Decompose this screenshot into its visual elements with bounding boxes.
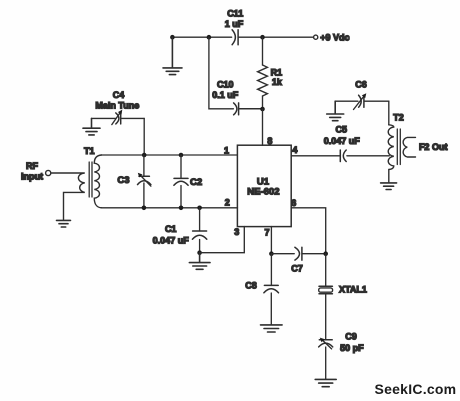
- svg-text:C8: C8: [245, 281, 257, 291]
- ground (below C4): [83, 118, 100, 134]
- ground (below C8): [261, 325, 283, 332]
- node: C11 right / R1 top junction: [260, 35, 265, 40]
- svg-text:C3: C3: [117, 175, 129, 186]
- ground (below C6 left): [327, 101, 344, 121]
- capacitor C8: [264, 254, 279, 324]
- svg-text:0.047 uF: 0.047 uF: [324, 136, 361, 146]
- wire: pin 3 to C1 bottom: [200, 227, 245, 253]
- svg-text:1: 1: [224, 145, 229, 155]
- capacitor C7: [271, 247, 325, 260]
- svg-text:+9 Vdc: +9 Vdc: [320, 32, 349, 42]
- node: supply rail / ground junction: [170, 35, 175, 40]
- transformer T2 core: [397, 129, 400, 165]
- node: C1 top rail junction: [197, 206, 202, 211]
- svg-text:0.1 uF: 0.1 uF: [212, 90, 239, 100]
- wire: tank bottom rail (pin 2): [101, 207, 237, 209]
- capacitor C4 (variable, Main Tune): [92, 110, 145, 155]
- transformer T1 primary winding: [51, 173, 85, 220]
- capacitor C10: [234, 103, 263, 115]
- svg-text:3: 3: [234, 227, 239, 237]
- wire: pin 4 output row: [291, 155, 389, 157]
- transformer T2 secondary winding: [403, 137, 415, 157]
- ground (below T1 primary): [57, 220, 71, 227]
- svg-text:1 uF: 1 uF: [225, 19, 244, 29]
- svg-text:C4: C4: [113, 90, 125, 100]
- node: C1 bottom / pin 3 junction: [197, 250, 202, 255]
- terminal: RF Input: [46, 170, 51, 175]
- ground (below C9): [315, 379, 336, 386]
- terminal: +9 Vdc: [314, 35, 318, 39]
- svg-text:C7: C7: [291, 263, 303, 273]
- capacitor C3 (variable): [138, 155, 151, 208]
- svg-text:C9: C9: [345, 332, 357, 342]
- ground (below T2): [381, 183, 397, 190]
- resistor R1: [258, 37, 268, 109]
- node: C10 drop junction: [207, 35, 212, 40]
- node: C2 top rail junction: [179, 153, 184, 158]
- wire: pin 6 to crystal branch: [291, 208, 326, 254]
- svg-text:XTAL1: XTAL1: [339, 284, 367, 294]
- capacitor C5: [340, 150, 346, 162]
- wire: tank top rail (pin 1): [101, 154, 237, 156]
- wire: +9V supply rail top: [172, 36, 313, 38]
- node: pin 7 / C7 / C8 junction: [269, 251, 274, 256]
- svg-text:C11: C11: [227, 9, 243, 19]
- transformer T1 core: [89, 162, 92, 197]
- svg-text:0.047 uF: 0.047 uF: [153, 235, 190, 245]
- wire: C6 to T2 top: [388, 101, 390, 125]
- crystal XTAL1: [319, 286, 333, 293]
- svg-text:2: 2: [225, 197, 230, 207]
- node: C2 bottom rail junction: [179, 206, 184, 211]
- svg-text:7: 7: [264, 228, 269, 238]
- svg-text:NE-602: NE-602: [247, 186, 279, 197]
- svg-text:Input: Input: [21, 172, 43, 182]
- capacitor C6 (variable): [335, 93, 389, 109]
- node: C7 right / crystal junction: [323, 251, 328, 256]
- wire: crystal to C9: [325, 294, 327, 340]
- node: C4/C3 top rail junction: [142, 153, 147, 158]
- wire: junction to crystal: [325, 254, 327, 287]
- svg-text:50 pF: 50 pF: [340, 343, 364, 353]
- wire: drop from rail to C10: [209, 37, 234, 109]
- svg-text:SeekIC.com: SeekIC.com: [375, 381, 457, 397]
- svg-text:1k: 1k: [272, 77, 283, 87]
- svg-text:6: 6: [291, 198, 296, 208]
- svg-text:C2: C2: [190, 177, 202, 188]
- capacitor C9 (variable): [319, 338, 333, 379]
- wire: pin 7 vertical: [270, 227, 272, 254]
- svg-text:4: 4: [292, 145, 297, 155]
- svg-text:T2: T2: [393, 113, 404, 123]
- capacitor C1: [192, 208, 206, 253]
- capacitor C11: [232, 30, 238, 45]
- svg-text:T1: T1: [84, 146, 95, 156]
- svg-text:C5: C5: [336, 125, 348, 135]
- transformer T2 primary winding: [388, 125, 394, 182]
- node: R1 bottom / C10 right junction: [260, 107, 265, 112]
- IC U1 NE-602: [237, 145, 291, 226]
- node: C3 bottom rail junction: [142, 206, 147, 211]
- svg-text:F2 Out: F2 Out: [419, 142, 448, 152]
- capacitor C2: [174, 155, 188, 208]
- svg-text:RF: RF: [26, 161, 38, 171]
- svg-text:Main Tune: Main Tune: [95, 100, 139, 110]
- ground (below supply rail left): [163, 37, 182, 74]
- ground (below C1): [189, 253, 210, 270]
- svg-text:C10: C10: [217, 80, 234, 90]
- transformer T1 secondary winding: [94, 155, 101, 208]
- svg-text:C1: C1: [165, 224, 177, 234]
- svg-text:C6: C6: [355, 80, 367, 90]
- wire: pin 8 vertical: [262, 109, 264, 145]
